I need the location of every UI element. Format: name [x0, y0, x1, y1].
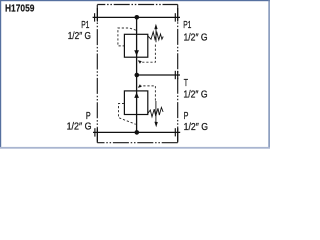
port P1 top-left ticks	[95, 8, 98, 22]
svg-text:H17059: H17059	[5, 4, 35, 15]
label port P1 top-right	[183, 20, 207, 43]
relief valve RV1 envelope (upper)	[124, 34, 147, 57]
wire: top rail P1 to P1	[93, 16, 180, 18]
port P bottom-left ticks	[95, 128, 98, 141]
port P bottom-right ticks	[175, 128, 177, 141]
relief valve RV2 envelope (lower)	[124, 91, 147, 115]
enclosure boundary (phantom line)	[97, 5, 177, 143]
RV2 drain arrowhead	[138, 84, 142, 87]
svg-text:P1: P1	[183, 20, 191, 31]
RV1 adjustment arrow	[155, 29, 157, 43]
RV1 spring	[148, 32, 164, 40]
junction node middle	[135, 73, 140, 78]
RV1 drain arrowhead	[138, 60, 142, 63]
port T right ticks	[175, 71, 177, 79]
RV2 pilot line (dashed)	[119, 104, 136, 125]
svg-text:1/2″ G: 1/2″ G	[183, 90, 207, 101]
svg-text:P1: P1	[81, 20, 89, 31]
svg-text:1/2″ G: 1/2″ G	[67, 122, 92, 133]
junction node bottom	[135, 130, 140, 135]
svg-text:1/2″ G: 1/2″ G	[184, 32, 208, 43]
label port P bottom-left	[67, 111, 92, 133]
RV1 flow arrowhead (down)	[134, 50, 139, 56]
svg-text:P: P	[184, 111, 189, 122]
label port P bottom-right	[184, 111, 208, 133]
svg-text:1/2″ G: 1/2″ G	[184, 122, 208, 133]
wire: T branch	[137, 74, 180, 76]
RV1 pilot line (dashed)	[118, 28, 136, 46]
port P1 top-right ticks	[175, 8, 177, 22]
wire: bottom rail P	[93, 131, 180, 133]
svg-text:T: T	[184, 78, 188, 89]
junction node top	[135, 15, 140, 20]
RV2 drain line (dashed)	[141, 86, 156, 101]
RV2 adjustment arrow	[155, 101, 157, 122]
svg-text:P: P	[86, 111, 91, 122]
RV2 spring	[148, 107, 164, 116]
label port T right	[183, 78, 207, 101]
svg-text:1/2″ G: 1/2″ G	[68, 31, 91, 42]
wire: main vertical line	[136, 17, 138, 132]
RV1 drain line (dashed)	[141, 45, 156, 63]
label port P1 top-left	[68, 20, 91, 42]
RV2 flow arrowhead (up)	[134, 92, 139, 98]
